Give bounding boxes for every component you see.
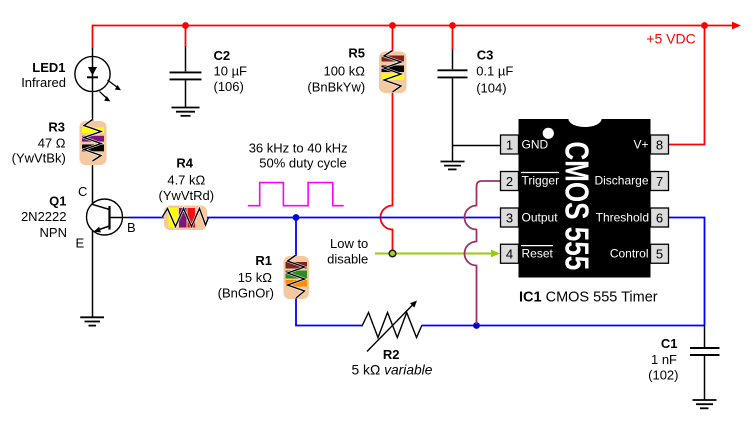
svg-text:10 µF: 10 µF (214, 64, 248, 79)
wire LED1 lead (black) (92, 48, 94, 121)
svg-text:2N2222: 2N2222 (21, 209, 67, 224)
ground below C2 (172, 108, 200, 116)
pin 5 box (651, 244, 669, 263)
svg-text:Infrared: Infrared (21, 75, 66, 90)
svg-text:Control: Control (610, 247, 649, 261)
resistor R1 (284, 255, 310, 299)
svg-text:(104): (104) (476, 81, 506, 96)
svg-text:(106): (106) (214, 79, 244, 94)
svg-text:4.7 kΩ: 4.7 kΩ (167, 172, 205, 187)
ground below C1 (693, 400, 717, 408)
green arrowhead into pin 4 (491, 250, 500, 258)
pin 7 box (651, 172, 669, 191)
svg-text:(BnGnOr): (BnGnOr) (218, 286, 274, 301)
square wave symbol (248, 183, 344, 206)
svg-text:(YwVtBk): (YwVtBk) (12, 150, 66, 165)
node junction bottom net / trigger wire (473, 322, 480, 329)
svg-text:GND: GND (522, 138, 549, 152)
pin 3 box (501, 208, 519, 227)
ground below C3 (441, 162, 465, 170)
svg-text:C2: C2 (214, 48, 231, 63)
svg-text:Discharge: Discharge (594, 174, 648, 188)
svg-text:Output: Output (522, 211, 559, 225)
svg-text:7: 7 (656, 174, 663, 189)
svg-text:5: 5 (656, 247, 663, 262)
svg-text:15 kΩ: 15 kΩ (238, 270, 273, 285)
svg-text:LED1: LED1 (32, 60, 65, 75)
svg-text:E: E (76, 236, 85, 251)
svg-text:47 Ω: 47 Ω (38, 136, 66, 151)
svg-text:C3: C3 (477, 47, 494, 62)
resistor R4 (162, 206, 209, 231)
pin 6 box (651, 208, 669, 227)
potentiometer R2 (363, 301, 423, 352)
wire rail to C3 (red) (452, 26, 454, 51)
+5V rail arrowhead (732, 22, 741, 30)
svg-text:36 kHz to 40 kHz: 36 kHz to 40 kHz (249, 140, 348, 155)
svg-text:R2: R2 (383, 347, 400, 362)
svg-text:C1: C1 (661, 336, 678, 351)
wire R4 to pin3 Output (blue) (207, 217, 501, 219)
wire reset net (green) (375, 253, 492, 255)
wire rail to LED1 (red) (92, 25, 94, 49)
capacitor C3 (438, 50, 468, 162)
wire rail to R5 (red) (392, 26, 394, 53)
svg-text:+5 VDC: +5 VDC (646, 30, 695, 46)
capacitor C2 (170, 47, 202, 108)
svg-text:R1: R1 (255, 253, 272, 268)
LED LED1 (75, 56, 121, 101)
svg-text:Q1: Q1 (49, 194, 66, 209)
pin 1 box (501, 135, 519, 154)
svg-text:3: 3 (506, 210, 513, 225)
node junction R5/rail (389, 22, 396, 29)
svg-text:NPN: NPN (40, 225, 67, 240)
svg-text:(102): (102) (648, 368, 678, 383)
pin 8 box (651, 135, 669, 154)
wire pin8 to rail (red) (669, 26, 705, 146)
svg-text:2: 2 (506, 174, 513, 189)
wire bottom net R2 to threshold corner (blue) (422, 218, 705, 327)
svg-text:5 kΩ variable: 5 kΩ variable (352, 363, 433, 378)
transistor Q1 (87, 199, 130, 318)
svg-text:6: 6 (656, 210, 663, 225)
svg-text:1 nF: 1 nF (651, 352, 677, 367)
wire R5 to reset node (red, hops over blue) (381, 93, 393, 252)
pin 4 box (501, 244, 519, 263)
wire C3 to pin1 (453, 145, 501, 147)
svg-text:1: 1 (506, 137, 513, 152)
svg-text:4: 4 (506, 247, 513, 262)
wire rail to C2 (red) (185, 26, 187, 48)
pin label Reset (active low) (521, 246, 554, 261)
resistor R5 (379, 51, 407, 94)
svg-text:100 kΩ: 100 kΩ (323, 64, 365, 79)
svg-text:R4: R4 (176, 156, 193, 171)
svg-text:8: 8 (656, 137, 663, 152)
svg-text:R5: R5 (348, 46, 365, 61)
svg-text:IC1 CMOS 555 Timer: IC1 CMOS 555 Timer (519, 289, 658, 305)
wire +5V rail (93, 25, 734, 27)
svg-text:C: C (78, 184, 87, 199)
svg-text:B: B (127, 220, 136, 235)
node junction C3/rail (449, 22, 456, 29)
node reset/R5 junction (green dot) (389, 250, 396, 257)
pin label Trigger (active low) (521, 173, 559, 188)
wire R1 to bottom net (blue) (295, 299, 363, 326)
svg-text:Reset: Reset (522, 247, 554, 261)
svg-text:Trigger: Trigger (522, 174, 560, 188)
node junction C2/rail (182, 22, 189, 29)
svg-text:(YwVtRd): (YwVtRd) (158, 188, 214, 203)
resistor R3 (80, 120, 107, 166)
svg-text:0.1 µF: 0.1 µF (476, 64, 513, 79)
svg-text:V+: V+ (633, 138, 648, 152)
pin 2 box (501, 172, 519, 191)
svg-text:CMOS 555: CMOS 555 (558, 141, 595, 270)
node junction V+/rail (701, 22, 708, 29)
wire Q1 base to R4 (blue) (129, 217, 164, 219)
svg-text:R3: R3 (48, 119, 65, 134)
wire trigger pin2 to bottom net (maroon, hops over blue+green) (465, 181, 501, 324)
svg-text:Threshold: Threshold (596, 211, 649, 225)
wire output node down to R1 (blue) (295, 218, 297, 257)
IC U1: IC1 CMOS 555 timer body (519, 111, 651, 278)
svg-text:disable: disable (327, 251, 368, 266)
capacitor C1 (690, 326, 720, 401)
svg-text:Low to: Low to (330, 236, 368, 251)
svg-text:50% duty cycle: 50% duty cycle (259, 155, 346, 170)
node junction output/R1 (293, 214, 300, 221)
wire R3 to Q1 collector (92, 165, 94, 200)
svg-text:(BnBkYw): (BnBkYw) (307, 79, 365, 94)
ground below Q1 (80, 317, 104, 325)
